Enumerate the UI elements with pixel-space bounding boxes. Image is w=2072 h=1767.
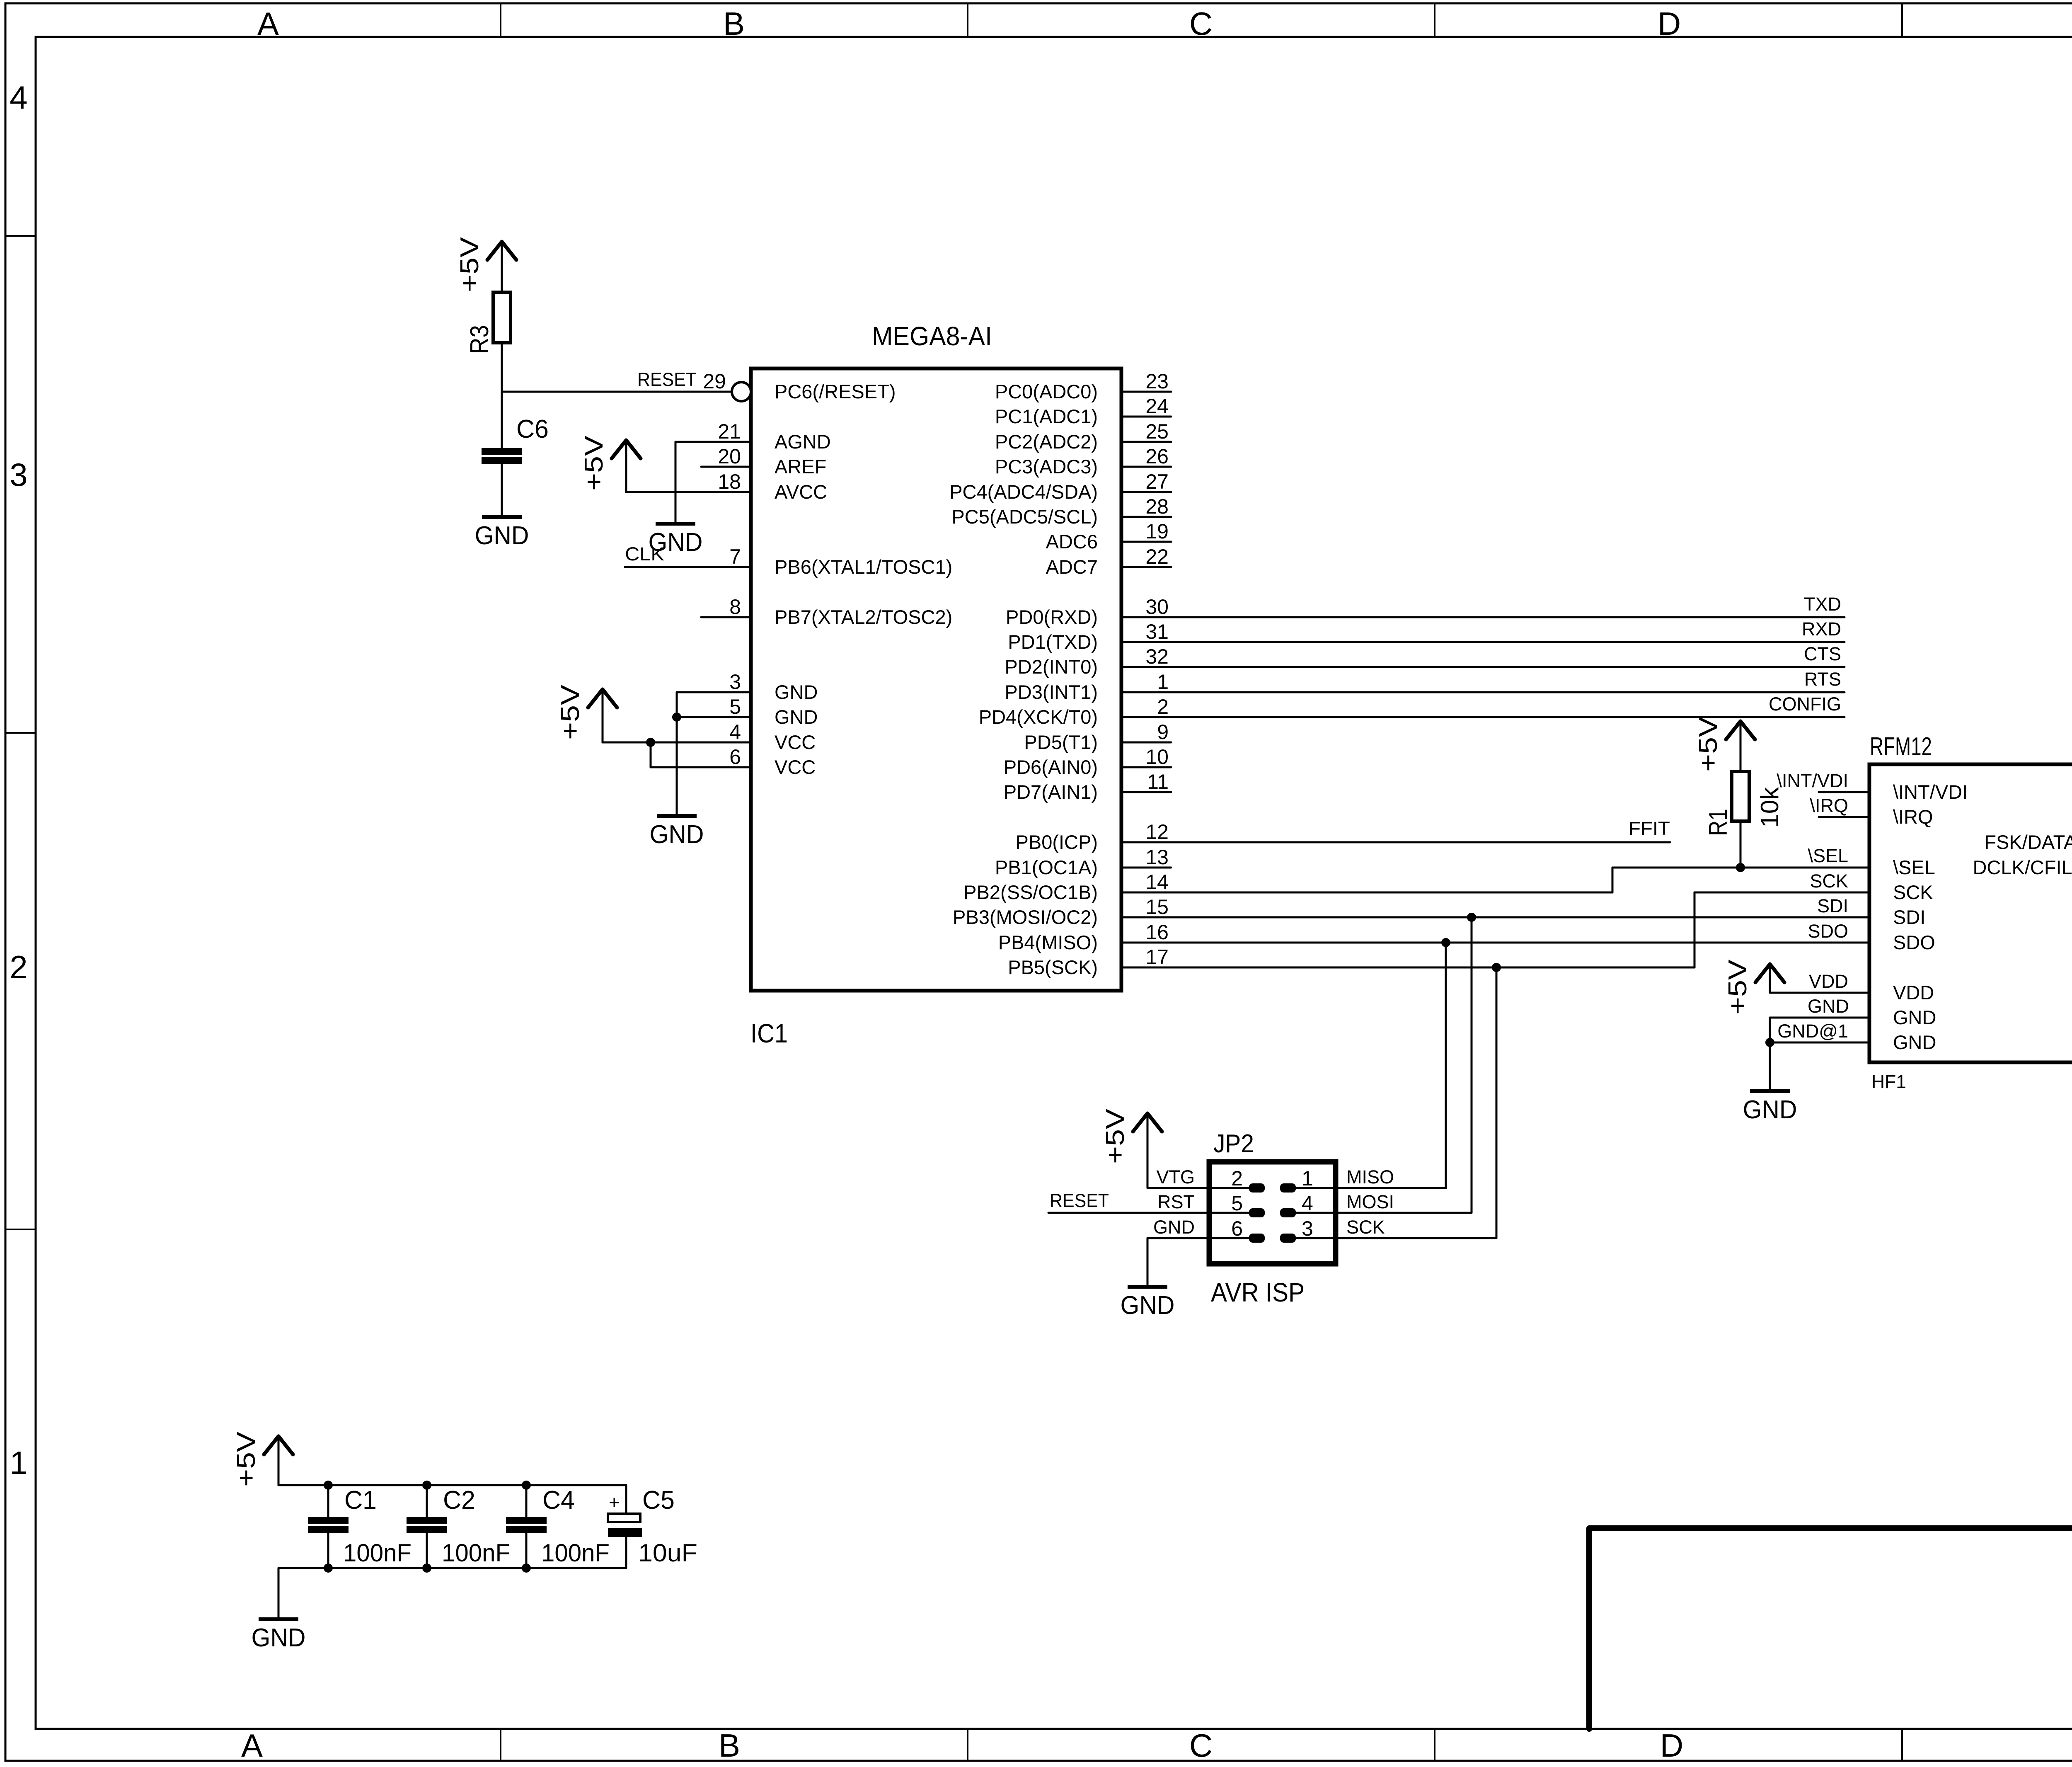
junction GND@1: [1765, 1038, 1774, 1047]
svg-text:GND@1: GND@1: [1777, 1020, 1848, 1042]
IC1 pin 3 GND: [701, 691, 751, 693]
svg-text:B: B: [719, 1727, 740, 1764]
svg-text:RST: RST: [1157, 1191, 1195, 1212]
svg-text:GND: GND: [775, 706, 818, 728]
wire net MISO vertical to JP2: [1445, 943, 1447, 1188]
svg-text:SCK: SCK: [1893, 881, 1933, 903]
IC1 pin 10 PD6(AIN0): [1121, 766, 1171, 768]
resistor R3 body: [493, 292, 511, 343]
IC1 pin 18 AVCC: [701, 491, 751, 493]
svg-text:12: 12: [1145, 820, 1169, 844]
svg-text:PD1(TXD): PD1(TXD): [1008, 631, 1098, 653]
svg-text:8: 8: [729, 595, 741, 618]
wire: [626, 491, 701, 493]
junction C1 bottom: [324, 1563, 333, 1573]
HF1 pin \SEL (left): [1819, 867, 1869, 869]
svg-text:FSK/DATA\FFS: FSK/DATA\FFS: [1984, 831, 2072, 853]
wire GND@1 wire: [1770, 1042, 1819, 1044]
wire C6 to GND: [501, 464, 503, 517]
svg-text:PB0(ICP): PB0(ICP): [1016, 831, 1098, 853]
svg-text:RFM12: RFM12: [1870, 732, 1932, 761]
IC1 pin 30 PD0(RXD): [1121, 616, 1171, 618]
wire GND vertical: [1769, 1018, 1771, 1091]
svg-text:PD0(RXD): PD0(RXD): [1006, 606, 1098, 628]
svg-text:SDI: SDI: [1893, 906, 1925, 928]
svg-text:PC5(ADC5/SCL): PC5(ADC5/SCL): [951, 506, 1098, 528]
svg-text:PC6(/RESET): PC6(/RESET): [775, 381, 896, 402]
svg-text:GND: GND: [1808, 996, 1849, 1017]
+5V supply at RFM12 VDD: [1723, 959, 1784, 1015]
wire AGND vertical: [675, 442, 677, 524]
svg-text:C: C: [1189, 1727, 1213, 1764]
junction MOSI tap: [1467, 913, 1476, 922]
svg-text:1: 1: [10, 1445, 27, 1481]
svg-text:5: 5: [729, 695, 741, 718]
connector JP2 box: [1209, 1162, 1336, 1264]
svg-text:+5V: +5V: [232, 1431, 261, 1487]
svg-text:RESET: RESET: [1050, 1190, 1109, 1211]
svg-text:GND: GND: [1893, 1006, 1936, 1028]
svg-text:100nF: 100nF: [343, 1539, 411, 1567]
wire JP2 GND wire: [1147, 1237, 1249, 1239]
IC HF1 RFM12 box: [1869, 764, 2072, 1062]
svg-text:\IRQ: \IRQ: [1810, 795, 1848, 816]
svg-text:27: 27: [1145, 470, 1169, 493]
svg-text:PB6(XTAL1/TOSC1): PB6(XTAL1/TOSC1): [775, 556, 952, 578]
capacitor C2 plates: [407, 1517, 447, 1533]
HF1 pin GND (left): [1819, 1042, 1869, 1044]
svg-text:SDI: SDI: [1817, 895, 1848, 916]
wire C4 top stem: [525, 1485, 528, 1517]
svg-text:PB3(MOSI/OC2): PB3(MOSI/OC2): [953, 906, 1098, 928]
wire JP2 VTG wire: [1147, 1187, 1249, 1189]
svg-text:R3: R3: [465, 325, 494, 354]
wire net TXD from IC1: [1171, 616, 1844, 618]
svg-text:GND: GND: [1893, 1031, 1936, 1053]
svg-text:SCK: SCK: [1346, 1217, 1385, 1238]
IC1 pin 1 PD3(INT1): [1121, 691, 1171, 693]
wire net RESET to JP2 RST: [1048, 1212, 1249, 1214]
IC1 pin 4 VCC: [701, 742, 751, 744]
HF1 pin \INT/VDI (left): [1819, 791, 1869, 793]
svg-text:IC1: IC1: [750, 1018, 788, 1048]
svg-text:20: 20: [718, 445, 741, 468]
svg-text:10k: 10k: [1756, 787, 1784, 828]
svg-text:DCLK/CFIL/FFIT: DCLK/CFIL/FFIT: [1973, 856, 2072, 878]
wire C1 bottom stem: [327, 1533, 329, 1568]
svg-text:2: 2: [1157, 695, 1169, 718]
svg-text:5: 5: [1231, 1192, 1243, 1215]
svg-text:2: 2: [10, 949, 27, 985]
wire net SDO from PB4 to RFM12: [1171, 942, 1869, 944]
svg-text:6: 6: [729, 745, 741, 768]
svg-text:2: 2: [1231, 1167, 1243, 1190]
svg-text:VCC: VCC: [775, 756, 816, 778]
svg-text:PC3(ADC3): PC3(ADC3): [995, 456, 1098, 478]
svg-text:100nF: 100nF: [442, 1539, 510, 1567]
svg-text:C6: C6: [516, 415, 549, 444]
svg-text:SDO: SDO: [1893, 931, 1935, 953]
HF1 pin \IRQ (left): [1819, 816, 1869, 818]
IC1 pin 12 PB0(ICP): [1121, 841, 1171, 844]
svg-text:C2: C2: [443, 1486, 475, 1515]
IC1 pin 2 PD4(XCK/T0): [1121, 716, 1171, 718]
wire JP2 GND vertical: [1147, 1238, 1149, 1287]
junction C2 bottom: [422, 1563, 431, 1573]
wire RESET to IC1 pin 29: [502, 391, 732, 393]
svg-text:PB7(XTAL2/TOSC2): PB7(XTAL2/TOSC2): [775, 606, 952, 628]
svg-text:+5V: +5V: [1723, 959, 1752, 1015]
svg-text:PB1(OC1A): PB1(OC1A): [995, 856, 1098, 878]
svg-text:JP2: JP2: [1213, 1130, 1254, 1158]
svg-text:3: 3: [729, 670, 741, 693]
svg-text:1: 1: [1302, 1167, 1313, 1190]
IC1 pin 27 PC4(ADC4/SDA): [1121, 491, 1171, 493]
IC U IC1 MEGA8-AI box: [751, 368, 1121, 991]
IC1 pin 8 PB7(XTAL2/TOSC2): [701, 616, 751, 618]
wire C5 top stem: [625, 1485, 627, 1514]
capacitor C4 plates: [506, 1517, 547, 1533]
IC1 pin 29 PC6(/RESET): [701, 391, 732, 393]
wire CLK to IC1 pin 7: [625, 566, 701, 568]
svg-text:+5V: +5V: [580, 435, 608, 491]
junction MISO tap: [1441, 938, 1450, 947]
svg-text:18: 18: [718, 470, 741, 493]
wire VCC pin 6: [651, 766, 701, 768]
svg-text:VTG: VTG: [1156, 1166, 1195, 1188]
svg-text:10uF: 10uF: [638, 1539, 697, 1567]
svg-text:GND: GND: [775, 681, 818, 703]
svg-text:+5V: +5V: [1694, 716, 1723, 772]
IC1 pin 25 PC2(ADC2): [1121, 441, 1171, 443]
svg-text:D: D: [1660, 1727, 1683, 1764]
junction C4 top: [522, 1481, 531, 1490]
IC1 pin 7 PB6(XTAL1/TOSC1): [701, 566, 751, 568]
svg-text:17: 17: [1145, 945, 1169, 969]
svg-text:3: 3: [1302, 1217, 1313, 1240]
svg-text:19: 19: [1145, 520, 1169, 543]
svg-text:+: +: [609, 1492, 620, 1513]
+5V supply at AVCC: [580, 435, 641, 492]
svg-text:3: 3: [10, 456, 27, 493]
svg-text:30: 30: [1145, 595, 1169, 618]
svg-text:9: 9: [1157, 720, 1169, 744]
svg-text:PB4(MISO): PB4(MISO): [998, 931, 1098, 953]
svg-text:CONFIG: CONFIG: [1769, 693, 1841, 715]
IC1 pin 23 PC0(ADC0): [1121, 391, 1171, 393]
wire net RXD from IC1: [1171, 641, 1844, 643]
IC1 pin 5 GND: [701, 716, 751, 718]
svg-text:PD7(AIN1): PD7(AIN1): [1004, 781, 1098, 803]
svg-text:ADC7: ADC7: [1046, 556, 1098, 578]
svg-text:PB5(SCK): PB5(SCK): [1008, 956, 1098, 978]
svg-text:100nF: 100nF: [541, 1539, 610, 1567]
svg-text:PD4(XCK/T0): PD4(XCK/T0): [979, 706, 1098, 728]
svg-text:FFIT: FFIT: [1629, 818, 1670, 839]
svg-text:A: A: [257, 5, 279, 42]
svg-text:SDO: SDO: [1808, 921, 1848, 942]
svg-text:D: D: [1658, 5, 1681, 42]
+5V supply at JP2: [1101, 1108, 1162, 1188]
svg-text:SCK: SCK: [1810, 870, 1848, 892]
IC1 pin 15 PB3(MOSI/OC2): [1121, 916, 1171, 919]
svg-text:C4: C4: [542, 1486, 575, 1515]
IC1 pin 17 PB5(SCK): [1121, 967, 1171, 969]
svg-text:GND: GND: [1121, 1291, 1175, 1320]
svg-text:25: 25: [1145, 420, 1169, 443]
JP2 pad 3 (SCK): [1280, 1234, 1296, 1243]
wire GND pin 3: [677, 691, 701, 693]
svg-text:+5V: +5V: [1101, 1108, 1130, 1164]
svg-text:4: 4: [729, 720, 741, 744]
wire net \SEL jog: [1612, 868, 1614, 892]
JP2 pad 2 (VTG): [1249, 1183, 1265, 1193]
ground at JP2: [1121, 1285, 1175, 1320]
svg-text:MISO: MISO: [1346, 1166, 1394, 1188]
svg-text:GND: GND: [475, 521, 529, 550]
junction R1 / \SEL: [1736, 863, 1745, 872]
+5V supply at VCC: [556, 684, 617, 742]
wire net SCK vertical to JP2: [1496, 967, 1498, 1238]
wire net SCK from PB5: [1171, 967, 1694, 969]
svg-text:32: 32: [1145, 645, 1169, 668]
svg-text:PD3(INT1): PD3(INT1): [1005, 681, 1098, 703]
IC1 pin 16 PB4(MISO): [1121, 942, 1171, 944]
svg-text:CTS: CTS: [1804, 643, 1841, 664]
wire net MOSI vertical to JP2: [1471, 917, 1473, 1213]
capacitor C6 plates: [482, 448, 522, 464]
ground at C6: [475, 515, 529, 550]
svg-text:1: 1: [1157, 670, 1169, 693]
IC1 pin 24 PC1(ADC1): [1121, 416, 1171, 418]
svg-text:RXD: RXD: [1802, 618, 1841, 640]
wire +5V rail: [278, 1484, 626, 1486]
wire C4 bottom stem: [525, 1533, 528, 1568]
junction C2 top: [422, 1481, 431, 1490]
JP2 pad 4 (MOSI): [1280, 1208, 1296, 1217]
junction SCK tap: [1492, 963, 1501, 972]
wire net FFIT: [1171, 841, 1670, 844]
wire VCC pin 4: [603, 742, 701, 744]
svg-text:GND: GND: [1743, 1096, 1797, 1124]
svg-text:RESET: RESET: [637, 369, 697, 390]
svg-text:TXD: TXD: [1804, 594, 1841, 615]
svg-text:R1: R1: [1704, 809, 1733, 836]
svg-text:24: 24: [1145, 395, 1169, 418]
wire net CTS from IC1: [1171, 666, 1844, 668]
svg-text:28: 28: [1145, 495, 1169, 518]
svg-text:15: 15: [1145, 895, 1169, 919]
junction C4 bottom: [522, 1563, 531, 1573]
IC1 pin 11 PD7(AIN1): [1121, 791, 1171, 793]
svg-text:31: 31: [1145, 620, 1169, 643]
wire C2 top stem: [426, 1485, 428, 1517]
junction GND branch: [672, 713, 681, 722]
svg-text:PD6(AIN0): PD6(AIN0): [1004, 756, 1098, 778]
svg-text:22: 22: [1145, 545, 1169, 568]
resistor R1 body: [1732, 771, 1749, 821]
svg-text:ADC6: ADC6: [1046, 531, 1098, 553]
IC1 pin 14 PB2(SS/OC1B): [1121, 892, 1171, 894]
svg-text:C5: C5: [642, 1486, 675, 1515]
wire GND wire: [1770, 1017, 1819, 1019]
title block thick outline: [1589, 1528, 2072, 1729]
wire R1 bottom to \SEL: [1740, 821, 1742, 868]
svg-text:11: 11: [1147, 770, 1169, 793]
IC1 pin 19 ADC6: [1121, 541, 1171, 543]
IC1 pin 26 PC3(ADC3): [1121, 466, 1171, 468]
wire net \SEL to RFM12: [1612, 867, 1869, 869]
svg-text:\INT/VDI: \INT/VDI: [1893, 781, 1968, 803]
wire C2 bottom stem: [426, 1533, 428, 1568]
wire C5 bottom stem: [625, 1537, 627, 1568]
svg-text:+5V: +5V: [556, 684, 585, 740]
svg-text:PC4(ADC4/SDA): PC4(ADC4/SDA): [949, 481, 1098, 503]
svg-text:26: 26: [1145, 445, 1169, 468]
JP2 pad 6 (GND): [1249, 1234, 1265, 1243]
svg-text:PC2(ADC2): PC2(ADC2): [995, 431, 1098, 453]
svg-text:CLK: CLK: [625, 543, 664, 565]
svg-text:6: 6: [1231, 1217, 1243, 1240]
svg-text:MOSI: MOSI: [1346, 1191, 1394, 1212]
wire net MISO from JP2: [1296, 1187, 1446, 1189]
svg-text:7: 7: [729, 545, 741, 568]
svg-text:AREF: AREF: [775, 456, 826, 478]
IC1 pin 9 PD5(T1): [1121, 742, 1171, 744]
ground at AGND: [649, 522, 703, 557]
ground at RFM12: [1743, 1089, 1797, 1124]
svg-text:PD5(T1): PD5(T1): [1024, 731, 1098, 753]
svg-text:GND: GND: [650, 820, 704, 849]
IC1 pin 31 PD1(TXD): [1121, 641, 1171, 643]
svg-text:\SEL: \SEL: [1893, 856, 1935, 878]
+5V supply at R3: [455, 237, 516, 292]
wire VDD wire: [1770, 992, 1819, 994]
wire net SCK from JP2: [1296, 1237, 1496, 1239]
svg-text:PC0(ADC0): PC0(ADC0): [995, 381, 1098, 402]
svg-text:A: A: [241, 1727, 263, 1764]
svg-text:PB2(SS/OC1B): PB2(SS/OC1B): [963, 881, 1098, 903]
svg-text:AVCC: AVCC: [775, 481, 827, 503]
IC1 pin 20 AREF: [701, 466, 751, 468]
svg-text:VDD: VDD: [1809, 971, 1848, 992]
HF1 pin GND (left): [1819, 1017, 1869, 1019]
svg-text:GND: GND: [1153, 1217, 1195, 1238]
IC1 pin 22 ADC7: [1121, 566, 1171, 568]
svg-text:MEGA8-AI: MEGA8-AI: [872, 321, 992, 351]
svg-text:\SEL: \SEL: [1808, 845, 1848, 866]
wire GND pin 5: [677, 716, 701, 718]
wire net SCK jog: [1694, 892, 1696, 967]
wire VCC vertical: [650, 742, 652, 767]
JP2 pad 1 (MISO): [1280, 1183, 1296, 1193]
HF1 pin SCK (left): [1819, 892, 1869, 894]
svg-text:PD2(INT0): PD2(INT0): [1005, 656, 1098, 678]
+5V supply at caps: [232, 1431, 293, 1487]
svg-text:4: 4: [10, 79, 27, 116]
wire net RTS from IC1: [1171, 691, 1844, 693]
junction C1 top: [324, 1481, 333, 1490]
svg-text:C: C: [1189, 5, 1213, 42]
+5V supply at R1: [1694, 716, 1755, 772]
svg-text:21: 21: [718, 420, 741, 443]
ground at caps: [252, 1617, 306, 1652]
IC1 pin 21 AGND: [701, 441, 751, 443]
svg-text:\IRQ: \IRQ: [1893, 806, 1933, 828]
svg-text:13: 13: [1145, 846, 1169, 869]
wire net SCK to RFM12: [1694, 892, 1869, 894]
wire net SDI from PB3 to RFM12: [1171, 916, 1869, 919]
svg-text:AGND: AGND: [775, 431, 831, 453]
svg-text:VDD: VDD: [1893, 982, 1934, 1003]
svg-text:29: 29: [703, 370, 726, 393]
svg-text:HF1: HF1: [1871, 1071, 1906, 1092]
wire net MOSI from JP2: [1296, 1212, 1472, 1214]
svg-text:14: 14: [1145, 870, 1169, 894]
svg-text:B: B: [723, 5, 745, 42]
HF1 pin SDI (left): [1819, 916, 1869, 919]
IC1 pin 28 PC5(ADC5/SCL): [1121, 516, 1171, 518]
svg-text:PC1(ADC1): PC1(ADC1): [995, 405, 1098, 427]
wire GND vertical: [676, 692, 678, 816]
wire rail to GND: [278, 1568, 280, 1619]
IC1 pin 13 PB1(OC1A): [1121, 867, 1171, 869]
svg-text:RTS: RTS: [1804, 669, 1841, 690]
wire: [675, 441, 701, 443]
svg-text:10: 10: [1145, 745, 1169, 768]
svg-text:23: 23: [1145, 370, 1169, 393]
wire net \SEL from PB2: [1171, 892, 1612, 894]
wire net CONFIG from IC1: [1171, 716, 1844, 718]
wire GND rail: [278, 1567, 626, 1569]
wire C1 top stem: [327, 1485, 329, 1517]
svg-text:GND: GND: [252, 1624, 306, 1652]
IC1 pin 32 PD2(INT0): [1121, 666, 1171, 668]
svg-text:C1: C1: [344, 1486, 377, 1515]
junction VCC branch: [646, 738, 655, 747]
svg-text:4: 4: [1302, 1192, 1313, 1215]
IC1 pin 6 VCC: [701, 766, 751, 768]
svg-text:+5V: +5V: [455, 237, 484, 292]
svg-text:16: 16: [1145, 921, 1169, 944]
svg-text:VCC: VCC: [775, 731, 816, 753]
JP2 pad 5 (RST): [1249, 1208, 1265, 1217]
svg-text:AVR ISP: AVR ISP: [1211, 1277, 1305, 1307]
capacitor C1 plates: [308, 1517, 349, 1533]
HF1 pin VDD (left): [1819, 992, 1869, 994]
wire R3 bottom to C6: [501, 343, 503, 448]
ground at IC1 GND pins: [650, 814, 704, 849]
HF1 pin SDO (left): [1819, 942, 1869, 944]
svg-text:\INT/VDI: \INT/VDI: [1777, 770, 1848, 791]
